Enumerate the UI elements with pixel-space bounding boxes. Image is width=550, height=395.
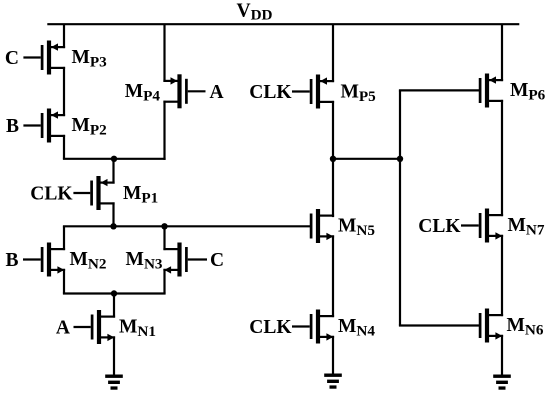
svg-text:C: C [210, 250, 224, 271]
NMOS transistor MN5 [310, 209, 334, 243]
svg-text:MN4: MN4 [338, 316, 375, 339]
wire MP6 drain to MN7 drain [501, 100, 503, 216]
wire MP3 drain to MP2 source [63, 67, 65, 116]
wire VDD to MP6 source [501, 24, 503, 81]
VDD power rail [47, 23, 519, 25]
wire MN2 source to node R [63, 269, 65, 294]
svg-text:A: A [56, 318, 70, 339]
svg-text:MN2: MN2 [70, 249, 107, 272]
svg-text:CLK: CLK [249, 82, 292, 103]
PMOS transistor MP4 [163, 74, 205, 108]
wire node R to MN1 drain [113, 294, 115, 318]
node P wire (MP2/MP4 drains to MP1 source) [63, 158, 166, 160]
wire to MN6 gate [399, 324, 479, 326]
svg-text:B: B [5, 250, 18, 271]
wire MP1 drain to node Q [112, 202, 114, 226]
wire MN1 source to ground [113, 336, 115, 374]
wire MN6 source to ground [501, 335, 503, 375]
junction node R [111, 290, 117, 296]
svg-text:CLK: CLK [30, 183, 73, 204]
svg-text:MP3: MP3 [72, 47, 108, 70]
wire VDD to MP3 source [63, 24, 65, 48]
wire node X feedback vertical [399, 90, 401, 325]
wire MN5 source to MN4 drain [332, 235, 334, 317]
svg-text:MP6: MP6 [510, 80, 546, 103]
wire VDD to MP5 source [332, 24, 334, 82]
junction node X right [397, 156, 403, 162]
svg-text:MP2: MP2 [72, 115, 107, 138]
node R wire (MN2/MN3 sources) [63, 292, 166, 294]
svg-text:CLK: CLK [418, 216, 461, 237]
node Q wire (to MN5 gate) [63, 225, 311, 227]
NMOS transistor MN7 [461, 209, 503, 243]
svg-text:MN1: MN1 [119, 317, 156, 340]
junction node Q at MP1 [110, 223, 116, 229]
ground under MN1 [105, 375, 123, 390]
svg-text:CLK: CLK [249, 317, 292, 338]
junction node Q at MN3 [161, 223, 167, 229]
svg-text:MP1: MP1 [123, 183, 158, 206]
wire node P to MP1 source [112, 159, 114, 184]
PMOS transistor MP5 [292, 75, 334, 109]
svg-text:MN7: MN7 [508, 215, 545, 238]
wire node Q to MN3 drain [163, 226, 165, 250]
wire VDD to MP4 source [163, 24, 165, 82]
wire node X to MN5 drain [332, 159, 334, 217]
wire MN4 source to ground [332, 336, 334, 374]
junction node P [111, 156, 117, 162]
svg-text:MN3: MN3 [126, 249, 163, 272]
PMOS transistor MP6 [479, 74, 503, 108]
svg-text:A: A [210, 82, 224, 103]
NMOS transistor MN4 [292, 310, 334, 344]
wire MP4 drain to node P [163, 101, 165, 160]
wire MP2 drain to node P [63, 135, 65, 159]
NMOS transistor MN6 [479, 309, 503, 343]
wire node Q to MN2 drain [63, 226, 65, 250]
svg-text:MN6: MN6 [507, 315, 544, 338]
PMOS transistor MP1 [73, 176, 114, 210]
wire MP5 drain to node X [332, 101, 334, 159]
svg-text:B: B [6, 116, 19, 137]
NMOS transistor MN3 [163, 243, 207, 277]
PMOS transistor MP3 [23, 41, 65, 75]
svg-text:VDD: VDD [237, 1, 273, 24]
svg-text:MP4: MP4 [125, 81, 161, 104]
wire MN3 source to node R [163, 269, 165, 294]
junction node X left [330, 156, 336, 162]
ground under MN6 [493, 375, 511, 390]
NMOS transistor MN2 [23, 243, 65, 277]
ground under MN4 [324, 374, 342, 389]
NMOS transistor MN1 [74, 310, 116, 344]
wire MN7 source to MN6 drain [501, 235, 503, 316]
node X wire [332, 158, 401, 160]
svg-text:MN5: MN5 [338, 216, 375, 239]
svg-text:C: C [5, 48, 19, 69]
svg-text:MP5: MP5 [341, 82, 377, 105]
wire to MP6 gate [399, 89, 479, 91]
PMOS transistor MP2 [23, 109, 65, 143]
